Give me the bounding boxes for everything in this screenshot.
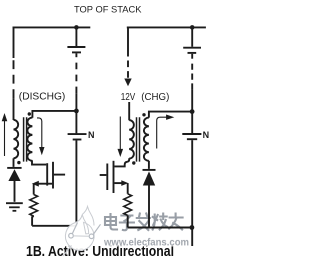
battery N right (long plate) [182,133,201,135]
mosfet Q2 gate bar [106,164,108,191]
battery cell top (short plate) [72,51,81,53]
mosfet Q1 gate bar [46,163,48,185]
wire 12V to transformer primary [128,102,130,120]
wire stub below battery [75,53,77,57]
diode D1 cathode bar [7,167,21,169]
wire primary bottom jog to mosfet drain [114,158,129,166]
wire secondary bottom to gate [32,160,46,164]
junction dot top right [190,25,195,30]
wire rail below cell N down to bottom [75,140,77,225]
svg-text:N: N [203,130,210,140]
phase dot T1 primary bottom [17,161,20,164]
wire left rail lower solid to transformer [13,98,15,120]
mosfet Q2 source arrow head [121,180,128,186]
svg-text:www.elecfans.com: www.elecfans.com [103,236,189,248]
wire diode to ground [14,181,16,202]
resistor R1 zigzag [30,195,38,217]
transformer T2 core [137,117,140,161]
transformer T1 primary winding [14,120,19,159]
svg-text:TOP OF STACK: TOP OF STACK [74,4,142,15]
battery top-of-stack stub [75,27,77,46]
wire top horizontal left [13,26,91,28]
transformer T1 core [24,117,27,161]
svg-text:N: N [88,130,95,140]
ground symbol [6,203,23,211]
wire stub below right battery [191,54,193,59]
mosfet Q2 source wire [114,182,122,184]
wire left rail solid upper [13,27,15,59]
mosfet Q1 source wire [38,183,53,185]
junction dot top left [74,25,79,30]
battery N left (long plate) [68,133,87,135]
wire arrow to resistor [33,184,35,195]
svg-text:(CHG): (CHG) [141,92,169,103]
phase dot T2 primary bottom [132,161,135,164]
wire arrow to resistor right [127,183,129,194]
battery cell top right (long plate) [183,47,201,49]
wire right secondary top to rail [149,112,192,118]
wire right rail dashed section [191,64,193,90]
battery cell top right (short plate) [188,52,197,54]
current arrow up (discharge) [4,121,6,157]
junction dot secondary to rail [74,109,79,114]
watermark logo blob (over circuit) [63,207,101,257]
transformer T2 secondary winding [144,118,149,161]
transformer T2 primary winding [129,120,134,159]
mosfet Q2 gate stub [100,174,107,176]
transformer T1 secondary winding [27,118,32,161]
mosfet Q1 channel bar [52,162,54,189]
wire top horizontal right [127,26,206,28]
wire right branch dashed section [127,61,129,79]
energy flow curved arrow right [157,117,167,148]
phase dot T1 secondary top [28,112,31,115]
wire right rail solid to cell N [191,90,193,134]
battery N right (short plate) [187,138,197,140]
wire diode D2 to bottom wire [148,186,150,228]
diode D1 triangle [8,169,20,181]
wire primary bottom to diode [13,158,15,167]
resistor R2 zigzag [124,194,132,216]
junction dot right secondary to rail [190,109,195,114]
wire right rail below cell N to bottom [191,140,193,246]
current arrow down (charge) [119,117,121,150]
wire bottom horizontal right [128,227,192,229]
mosfet Q2 channel bar [113,161,115,193]
wire secondary bottom to diode right [148,161,150,169]
phase dot T2 secondary top [142,113,145,116]
wire left rail dashed section [13,60,15,98]
wire secondary top to rail [32,111,76,118]
diode D2 triangle [143,171,155,185]
watermark chinese characters [105,214,183,231]
wire mid rail solid to cell N [75,93,77,133]
junction dot bottom right [190,225,195,230]
mosfet Q1 source arrow head [32,181,39,187]
diode D2 cathode bar [143,169,156,171]
mosfet Q1 drain stub [54,174,65,176]
svg-text:(DISCHG): (DISCHG) [19,92,66,103]
wire resistor to bottom [32,216,34,226]
arrow head 12V down [124,79,131,87]
svg-text:12V: 12V [121,92,136,103]
wire resistor to bottom right [127,215,129,227]
battery N left (short plate) [73,139,82,141]
wire bottom horizontal left [32,225,76,227]
energy flow curved arrow down [37,118,42,147]
wire right branch solid upper [127,27,129,57]
battery cell top (long plate) [67,46,85,48]
battery top-of-stack right stub [191,27,193,46]
wire mid rail dashed section [75,63,77,94]
